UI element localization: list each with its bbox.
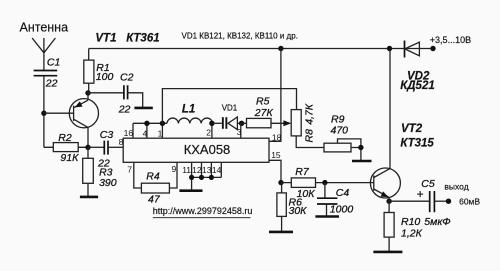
svg-text:7: 7 [127,165,132,175]
node: R7/C4/base junction [322,180,327,185]
svg-text:470: 470 [331,124,349,136]
node: L1/VD1/pin2 [209,121,214,126]
pin 1 lead [161,123,163,138]
wire riser from pin1 node to R8 top [162,89,296,124]
node: output terminal [446,199,451,204]
resistor R9 [324,113,361,160]
pins 11-14 leads to ground [182,162,221,190]
resistor R10 [384,201,422,251]
svg-text:1000: 1000 [330,204,354,216]
node: VD1/R5/pin3 [239,121,244,126]
capacitor C2 [88,72,143,116]
resistor R1 [84,49,114,94]
ground (R6) [269,231,293,234]
capacitor C5 [417,178,451,228]
label: site url [153,206,253,218]
pin 2 lead [211,123,213,138]
resistor R5 [242,96,290,128]
inductor L1 [167,104,213,124]
svg-text:8: 8 [119,137,124,147]
wire emitter to output [389,198,429,201]
ground (R3) [80,196,98,199]
svg-text:18: 18 [272,132,282,142]
ground (C4) [315,215,339,218]
transistor VT2 (NPN KT315) [370,49,434,199]
svg-text:16: 16 [124,128,134,138]
svg-text:выход: выход [444,182,468,192]
svg-text:+: + [417,187,424,201]
svg-text:14: 14 [212,165,222,175]
svg-text:+3,5...10В: +3,5...10В [430,35,471,45]
capacitor C3 [88,129,123,170]
trimmer R8 [291,103,324,147]
pin 3 lead [240,123,242,138]
svg-text:5мкФ: 5мкФ [424,216,450,228]
capacitor C1 [34,57,61,90]
varicap VD1 [212,103,242,129]
svg-text:13: 13 [202,165,212,175]
wire +V down to pin 18 [269,49,281,142]
svg-text:4,7К: 4,7К [303,103,315,125]
svg-text:3: 3 [237,127,242,137]
svg-text:R8: R8 [303,129,315,143]
wire: pins 16-4-1 bus [133,122,167,124]
transistor VT1 (PNP KT361) [69,32,159,128]
svg-text:C2: C2 [120,72,134,84]
ground (pins 11-14) [179,189,202,192]
svg-text:30К: 30К [289,205,308,217]
diode VD2 [400,41,435,93]
svg-text:R5: R5 [256,96,270,108]
svg-text:http://www.299792458.ru: http://www.299792458.ru [153,206,253,216]
svg-text:27К: 27К [254,107,274,119]
resistor R6 [277,183,307,232]
svg-text:22: 22 [118,103,131,115]
svg-text:1,2К: 1,2К [401,228,423,240]
node: +V terminal [430,46,435,51]
svg-text:VD1 КВ121, КВ132, КВ110 и др.: VD1 КВ121, КВ132, КВ110 и др. [182,32,298,41]
svg-text:КТ315: КТ315 [400,138,434,150]
svg-text:10К: 10К [297,188,316,200]
svg-text:C3: C3 [100,129,114,141]
svg-text:КХА058: КХА058 [184,142,231,157]
ground (C2) [134,107,152,110]
IC U1 KXA058 [123,138,269,162]
svg-text:VT2: VT2 [401,123,423,135]
svg-text:4: 4 [143,128,148,138]
pin 15 lead [269,160,281,182]
resistor R7 [281,166,374,200]
svg-text:47: 47 [148,194,161,206]
svg-text:L1: L1 [182,104,195,116]
svg-text:390: 390 [99,177,117,189]
pin 4 lead [146,123,148,138]
node A: antenna/base junction [41,111,46,116]
svg-text:C4: C4 [336,187,350,199]
svg-text:C1: C1 [47,57,60,69]
svg-text:100: 100 [96,71,114,83]
node: pin15/R6/R7 junction [278,180,283,185]
svg-text:2: 2 [206,127,211,137]
wire emitter [87,93,89,100]
svg-text:R7: R7 [295,166,310,178]
top supply bus [89,48,433,50]
svg-text:12: 12 [192,165,202,175]
ground (R9) [352,160,372,163]
resistor R3 [83,147,117,196]
node: collector/VD2 bus junction [387,46,392,51]
wire base VT1 [44,112,74,114]
svg-text:КТ361: КТ361 [126,32,159,44]
svg-text:9: 9 [172,164,177,174]
arrow into R8 [283,120,291,126]
wire antenna down to base node and R2 [43,76,45,148]
svg-text:R4: R4 [146,170,160,182]
capacitor C4 [317,183,353,217]
node: +V branch on bus [278,46,283,51]
svg-text:91К: 91К [60,152,79,164]
pin 7 lead and resistor R4 [127,162,177,205]
svg-text:R2: R2 [58,132,72,144]
antenna [32,38,55,70]
svg-text:КД521: КД521 [400,80,435,92]
ground (R10) [373,251,402,254]
svg-text:1: 1 [158,128,163,138]
svg-text:R10: R10 [401,216,420,228]
svg-text:VD1: VD1 [222,103,238,112]
svg-text:11: 11 [182,165,191,175]
node: emitter junction [386,199,391,204]
svg-text:15: 15 [271,150,281,160]
node: R1/C2/VT1 emitter junction [85,90,90,95]
svg-text:Антенна: Антенна [20,21,69,35]
node: collector/R2/C3/R3 junction [85,145,90,150]
svg-text:22: 22 [45,78,58,90]
svg-text:VT1: VT1 [95,32,116,44]
svg-text:60мВ: 60мВ [459,196,480,206]
pin 16 lead [132,123,134,138]
resistor R2 [44,132,88,164]
wire VT1 collector down [87,127,89,147]
